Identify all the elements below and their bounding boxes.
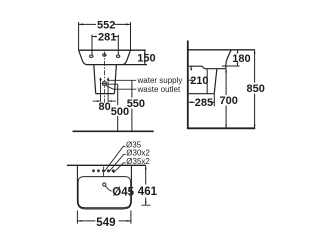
arrow 281 left <box>92 36 96 38</box>
180 dimension line <box>237 50 239 66</box>
svg-text:Ø45: Ø45 <box>112 186 134 198</box>
arrow 549 left <box>78 220 82 222</box>
leader Ø45 <box>105 186 111 191</box>
svg-text:80: 80 <box>99 101 111 113</box>
waste level reference line <box>107 83 118 85</box>
leader to tap hole Ø35x2 <box>113 163 125 173</box>
arrow 285 left <box>189 101 193 103</box>
arrow 285 right <box>210 101 214 103</box>
arrow 281 right <box>114 36 118 38</box>
461 dimension line <box>145 166 147 205</box>
basin front bottom line + 150 lower reference <box>87 64 147 66</box>
svg-text:552: 552 <box>97 19 115 31</box>
plan view basin outer outline <box>77 165 131 209</box>
water supply arrow side view <box>190 67 192 70</box>
plan view bowl outline <box>78 177 131 208</box>
180 lower reference tick <box>222 65 240 67</box>
basin front view outline <box>79 49 146 51</box>
tap hole front centre <box>103 54 106 56</box>
svg-text:549: 549 <box>96 217 115 229</box>
150 dimension line <box>144 50 146 64</box>
overflow hole Ø45 <box>103 183 106 186</box>
arrow 210 left <box>189 79 193 81</box>
arrow 180 bottom <box>237 62 239 65</box>
water supply arrows up <box>99 77 102 80</box>
svg-text:210: 210 <box>190 75 208 87</box>
svg-text:Ø35x2: Ø35x2 <box>126 157 150 166</box>
front view: 281 dimension line <box>92 36 118 38</box>
side view wall line <box>187 41 189 129</box>
centreline front view <box>103 52 105 103</box>
side view basin front profile curve <box>226 50 231 69</box>
549 dimension line <box>77 220 130 222</box>
svg-text:461: 461 <box>138 186 158 198</box>
side view basin underside <box>189 66 226 69</box>
549 extension lines <box>77 211 130 224</box>
waste outlet leader <box>106 86 136 90</box>
285 dimension line <box>189 101 215 103</box>
arrow 80 left (points right) <box>97 100 101 102</box>
arrow 850 top <box>254 50 256 54</box>
arrow 549 right <box>127 220 131 222</box>
water supply arrow shafts <box>101 79 109 102</box>
plan view wall line <box>67 164 146 166</box>
pedestal front view <box>94 65 117 94</box>
svg-text:281: 281 <box>98 31 116 43</box>
front view: 281 dimension extension lines <box>92 35 118 55</box>
arrow 80 right (points left) <box>108 100 112 102</box>
pedestal side view <box>189 69 217 94</box>
tap holes plan view <box>92 169 95 172</box>
285 extension line <box>213 94 215 106</box>
850 dimension line <box>254 50 256 129</box>
500 dimension line <box>117 84 119 131</box>
svg-text:285: 285 <box>195 97 213 109</box>
side view basin top line <box>188 49 255 51</box>
arrow 552 left <box>79 23 83 25</box>
svg-text:850: 850 <box>247 83 265 95</box>
461 lower reference tick <box>141 204 150 206</box>
arrow 850 bottom <box>254 125 256 129</box>
floor line side view <box>187 127 255 129</box>
80 dimension line <box>93 100 116 102</box>
svg-text:700: 700 <box>220 95 238 107</box>
leader to tap hole Ø35 <box>104 146 125 172</box>
svg-text:180: 180 <box>232 53 250 65</box>
700 dimension line <box>225 69 227 129</box>
plan centre tick <box>102 167 104 177</box>
waste outlet circle front view <box>102 81 106 85</box>
tap hole front left <box>90 55 93 57</box>
arrow 552 right <box>126 23 130 25</box>
550 dimension line <box>131 80 133 131</box>
arrow 180 top <box>237 50 239 53</box>
leader to tap hole Ø30x2 <box>108 155 125 173</box>
front view: 552 dimension line <box>79 23 131 25</box>
arrow 150 top <box>144 50 146 54</box>
arrow 150 bottom <box>144 61 146 65</box>
210 dimension line <box>189 79 191 81</box>
arrow 461 top <box>145 166 147 170</box>
water supply leader <box>109 79 137 81</box>
arrow wall supply down <box>190 68 192 71</box>
front view: 552 dimension extension lines <box>79 22 131 50</box>
waste pipe side view <box>206 69 208 94</box>
tap hole front right <box>116 55 119 57</box>
arrowheads <box>78 23 256 221</box>
svg-text:150: 150 <box>137 53 155 65</box>
floor line front view <box>73 130 154 132</box>
svg-text:waste outlet: waste outlet <box>137 85 181 94</box>
arrow 700 top <box>225 69 227 73</box>
arrow 700 bottom <box>225 125 227 129</box>
arrow 461 bottom <box>145 202 147 206</box>
svg-text:550: 550 <box>127 98 145 110</box>
